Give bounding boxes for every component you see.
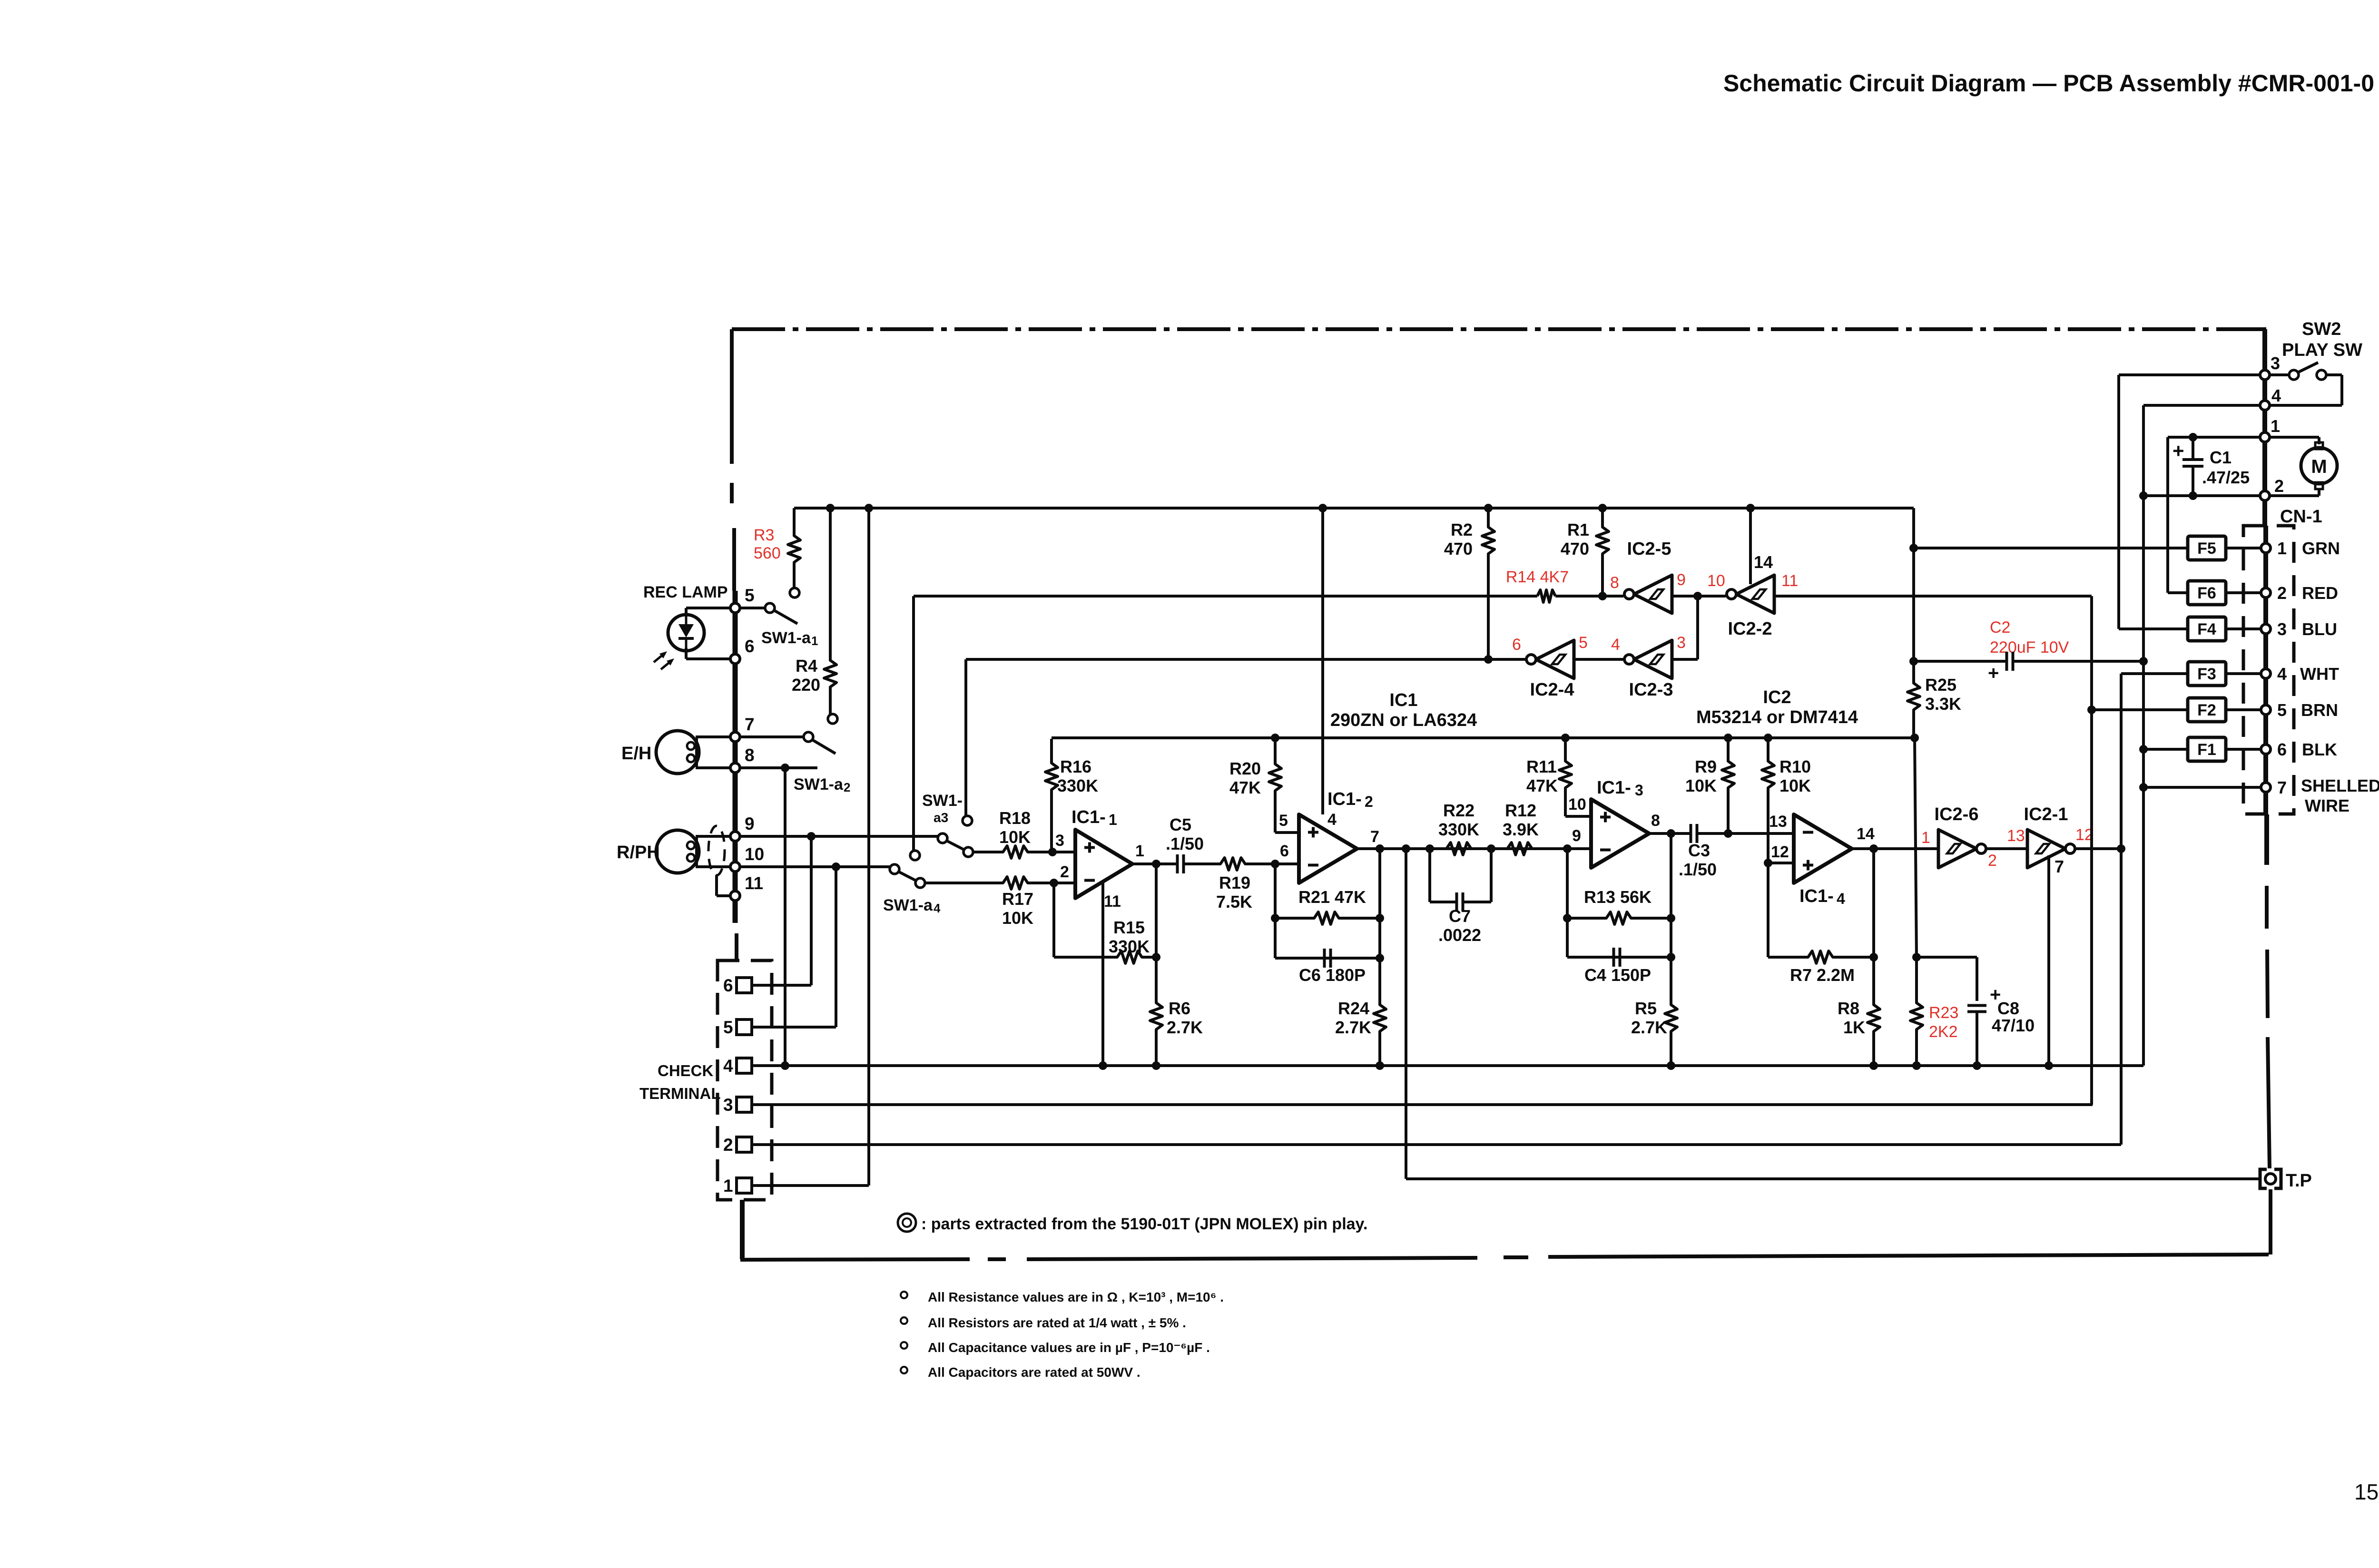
svg-text:E/H: E/H [621, 744, 651, 764]
svg-text:C3: C3 [1688, 841, 1710, 860]
junction IC1-1 pin3 node with R16 [1048, 848, 1057, 856]
svg-text:12: 12 [1771, 843, 1789, 861]
svg-text:8: 8 [1651, 812, 1660, 830]
CN-1 pin 4 WHT [2261, 669, 2271, 678]
wire IC2-1 output to V2 [2075, 847, 2121, 850]
svg-text:C7: C7 [1449, 906, 1471, 926]
svg-text:R24: R24 [1338, 999, 1369, 1018]
svg-text:2: 2 [844, 780, 850, 794]
wire C8 branch [1917, 956, 1977, 959]
svg-text:3: 3 [2271, 353, 2280, 373]
svg-text:10: 10 [745, 844, 764, 864]
wire LED anode to node 5 [686, 607, 731, 609]
svg-text:4: 4 [1327, 811, 1337, 829]
svg-text:All Capacitors are rated at 50: All Capacitors are rated at 50WV . [928, 1365, 1140, 1380]
svg-text:F4: F4 [2197, 620, 2216, 638]
svg-text:13: 13 [1769, 813, 1787, 831]
svg-text:8: 8 [1610, 574, 1619, 592]
svg-text:3: 3 [1055, 832, 1064, 850]
wire SHELLED WIRE row from V3 to CN-1 pin 7 [2143, 786, 2262, 789]
boundary left border dashes above CHECK TERMINAL box [735, 933, 738, 960]
svg-text:8: 8 [745, 745, 755, 765]
svg-text:6: 6 [2277, 740, 2287, 759]
svg-text:R18: R18 [999, 808, 1031, 828]
svg-text:R10: R10 [1779, 757, 1811, 776]
wire into IC1-3 pin 9 [1567, 847, 1591, 850]
svg-text:14: 14 [1754, 552, 1773, 572]
junction V3 at C2 row [2139, 657, 2148, 666]
svg-text:2: 2 [723, 1135, 733, 1155]
wire bus3 corner down to SW1-a3 throw [964, 659, 967, 815]
svg-text:F6: F6 [2197, 584, 2216, 602]
wire supply bus top (bus1) [794, 507, 1912, 510]
switch SW1-a3 [938, 833, 947, 843]
svg-text:SW1-: SW1- [922, 792, 963, 810]
svg-text:1: 1 [1109, 811, 1117, 828]
wire IC2-1 pin 7 down to ground bus [2047, 855, 2050, 1066]
svg-text:WIRE: WIRE [2305, 796, 2350, 815]
wire bus2 to R14 and IC2-5 [914, 595, 1537, 598]
svg-text:IC1: IC1 [1389, 690, 1417, 710]
wire E/H top to node 7 [696, 735, 731, 738]
wire node 10 to SW1-a4 [739, 865, 890, 868]
capacitor C7 .0022 parallel [1428, 849, 1431, 902]
wire node 9 to SW1-a3 [739, 835, 938, 838]
wire node 7 to SW1-a2 [739, 735, 804, 738]
CN-1 pin 1 GRN [2261, 543, 2271, 553]
switch SW1-a4 upper throw contact [910, 851, 920, 860]
svg-text:4: 4 [2277, 664, 2287, 684]
capacitor C3 .1/50 [1690, 824, 1692, 843]
svg-text:2: 2 [1060, 863, 1069, 881]
wire IC2-3 output to IC2-4 input [1574, 658, 1623, 661]
boundary right border dash-dot below CN-1 [2264, 814, 2269, 865]
wire IC1-2 output row [1357, 847, 1537, 850]
svg-text:290ZN or LA6324: 290ZN or LA6324 [1330, 710, 1477, 730]
svg-text:F5: F5 [2197, 539, 2216, 558]
svg-text:3: 3 [1677, 634, 1686, 652]
wire C3 node to IC1-4 pin 13 [1728, 832, 1794, 835]
svg-text:10K: 10K [1779, 776, 1811, 795]
svg-text:10K: 10K [1002, 908, 1033, 928]
svg-text:1: 1 [1921, 829, 1930, 847]
ferrite bead F6 [2188, 581, 2226, 605]
svg-text:F2: F2 [2197, 701, 2216, 719]
wire IC1-4 output down through R7 to R8 [1872, 849, 1875, 1004]
svg-text:GRN: GRN [2302, 539, 2340, 558]
svg-text:IC1-: IC1- [1597, 778, 1631, 798]
svg-text:5: 5 [1579, 634, 1588, 652]
junction V3 at SHELLED row [2139, 783, 2148, 792]
cable shield dashed loop at R/PH [708, 826, 725, 875]
svg-text:R9: R9 [1695, 757, 1717, 776]
svg-text:R21 47K: R21 47K [1298, 887, 1366, 907]
svg-text:F3: F3 [2197, 665, 2216, 683]
svg-text:330K: 330K [1438, 820, 1479, 839]
wire SW2 pin 3 row [2119, 373, 2260, 376]
svg-text:1: 1 [811, 634, 818, 648]
ferrite bead F2 [2188, 698, 2226, 722]
wire R20 into IC1-2 pin 5 [1275, 831, 1299, 834]
svg-text:220uF 10V: 220uF 10V [1990, 638, 2069, 657]
wire R11 into IC1-3 pin 10 [1565, 815, 1591, 818]
svg-text:1: 1 [723, 1176, 733, 1196]
wire vertical node 8 down to ground bus row [784, 768, 786, 1066]
boundary right border upper thick segment through SW2 pins [2262, 329, 2267, 526]
svg-text:1: 1 [2277, 539, 2287, 558]
wire E/H bottom to node 8 [696, 766, 731, 769]
svg-text:PLAY SW: PLAY SW [2282, 340, 2362, 360]
svg-text:C6 180P: C6 180P [1299, 965, 1366, 985]
wire node 8 with junction to check-terminal 4 bus [739, 766, 817, 769]
wire V2 vertical (IC2-1 output net) [2120, 674, 2123, 1145]
wire pin 1 to motor top [2271, 436, 2319, 439]
svg-text:470: 470 [1444, 539, 1473, 559]
wire row C from CHECK pin 2 [752, 1143, 2121, 1146]
wire bus1 corner down right side (V0) [1912, 507, 1914, 510]
svg-text:SW1-a: SW1-a [761, 629, 811, 647]
svg-text:a3: a3 [934, 810, 948, 825]
wire BLK row from V3 to CN-1 pin 6 [2143, 748, 2262, 751]
svg-text:R16: R16 [1060, 757, 1091, 776]
boundary right border thick segment inside CN-1 [2263, 526, 2268, 814]
svg-text:1: 1 [1135, 842, 1144, 860]
CHECK TERMINAL dashed box [718, 960, 772, 1200]
svg-text:7: 7 [2055, 857, 2064, 876]
note bullet 2: resistor rating [901, 1317, 907, 1324]
svg-text:BLU: BLU [2302, 619, 2337, 639]
svg-text:T.P: T.P [2286, 1171, 2312, 1191]
svg-text:All Resistance values are in Ω: All Resistance values are in Ω , K=10³ ,… [928, 1290, 1224, 1304]
resistor R19 7.5K [1214, 858, 1275, 870]
svg-text:330K: 330K [1057, 776, 1098, 795]
svg-text:IC2-3: IC2-3 [1629, 680, 1673, 700]
wire IC2-2 input pin 11 row to V1 [1774, 595, 2092, 598]
wire IC2-5 input to IC2-2 output [1672, 595, 1726, 598]
node 6 on left connector strip [730, 654, 740, 664]
wire IC1-4 output node [1852, 847, 1938, 850]
svg-text:13: 13 [2007, 827, 2025, 845]
svg-text:C5: C5 [1170, 815, 1191, 834]
svg-text:9: 9 [1677, 571, 1686, 589]
wire bus2 corner down to SW1-a4 throw [912, 596, 915, 850]
svg-text:2K2: 2K2 [1929, 1023, 1958, 1041]
junction R10 at IC1-4 pin 12 [1764, 859, 1772, 867]
switch SW1-a4 [890, 864, 899, 874]
junction V0 at GRN row [1909, 544, 1918, 552]
wire SW2 pin3 net down to BLU row [2117, 375, 2120, 629]
wire V0 down from bus4 to C8 node [1915, 738, 1917, 957]
wire motor bottom to pin 2 [2318, 489, 2320, 496]
junction IC1-2 pin6 node [1271, 860, 1279, 868]
svg-text:9: 9 [745, 814, 755, 833]
capacitor C8 47/10 electrolytic [1967, 1004, 1986, 1007]
svg-text:C1: C1 [2210, 448, 2232, 467]
boundary left border lower segment below CHECK TERMINAL [740, 1200, 745, 1259]
wire CHECK pin 1 to supply bus riser [752, 1184, 869, 1187]
svg-text:5: 5 [1279, 812, 1288, 830]
svg-text:IC2-1: IC2-1 [2024, 804, 2068, 824]
CN-1 pin 6 BLK [2261, 745, 2271, 754]
LED D1 REC LAMP symbol [668, 615, 704, 651]
boundary left border connector strip (nodes 5-11) [733, 591, 738, 923]
wire V3 vertical (ground return net) [2142, 405, 2145, 1066]
wire into IC1-2 inverting input pin 6 [1275, 862, 1299, 865]
CN-1 pin 7 SHELLED WIRE [2261, 783, 2271, 792]
note bullet 3: capacitance values [901, 1342, 907, 1349]
svg-text:R13 56K: R13 56K [1584, 887, 1652, 907]
svg-text:IC2-4: IC2-4 [1530, 680, 1574, 700]
junction IC1-1 pin2 node [1050, 879, 1058, 887]
svg-text:CHECK: CHECK [658, 1062, 714, 1079]
boundary bottom border (dash-dot) [740, 1259, 970, 1260]
svg-text:SHELLED: SHELLED [2301, 776, 2379, 795]
wire R10 junction into IC1-4 pin 12 [1768, 862, 1794, 864]
svg-text:C8: C8 [1997, 999, 2019, 1018]
svg-text:R12: R12 [1505, 801, 1536, 820]
wire IC1-1 output node down through R15 to R6 [1155, 864, 1158, 957]
svg-text:6: 6 [745, 637, 755, 656]
svg-text:RED: RED [2302, 583, 2338, 603]
wire RED row from C1 net to CN-1 pin 2 [2168, 591, 2262, 594]
node 11 on left connector strip [730, 891, 740, 901]
svg-text:10K: 10K [999, 827, 1031, 847]
svg-text:R20: R20 [1229, 759, 1261, 778]
svg-text:R6: R6 [1169, 999, 1190, 1018]
svg-text:All Resistors are rated at 1/4: All Resistors are rated at 1/4 watt , ± … [928, 1315, 1186, 1330]
svg-text:R4: R4 [796, 656, 817, 676]
svg-text:4: 4 [1837, 890, 1845, 907]
note bullet 4: capacitor rating [901, 1367, 907, 1373]
junction IC1-3 pin 9 node [1563, 844, 1572, 853]
svg-text:R23: R23 [1929, 1004, 1958, 1022]
ferrite bead F4 [2188, 617, 2226, 641]
ferrite bead F5 [2188, 536, 2226, 560]
junction V3 at C1 bottom row [2139, 491, 2148, 500]
svg-text:220: 220 [792, 675, 820, 695]
wire IC1-1 pin 11 down to ground bus [1101, 881, 1104, 1066]
svg-text:SW2: SW2 [2302, 319, 2341, 339]
svg-text:7.5K: 7.5K [1216, 892, 1252, 911]
svg-text:11: 11 [745, 873, 763, 893]
CN-1 pin 3 BLU [2261, 624, 2271, 634]
junction V0 at C8 branch [1912, 953, 1921, 961]
svg-text:R17: R17 [1002, 889, 1033, 909]
svg-text:7: 7 [2277, 778, 2287, 797]
test point T.P [2260, 1169, 2267, 1188]
svg-text:5: 5 [745, 586, 755, 605]
svg-text:R3: R3 [754, 526, 774, 544]
svg-text:2.7K: 2.7K [1631, 1018, 1667, 1037]
svg-text:2: 2 [1365, 793, 1373, 810]
svg-text:1: 1 [2271, 416, 2280, 436]
wire IC1-1 output to C5 [1132, 862, 1177, 865]
svg-text:6: 6 [723, 976, 733, 995]
wire vertical from IC2-5/IC2-2 node down to IC2-3 input [1696, 596, 1699, 659]
svg-text:R14 4K7: R14 4K7 [1506, 568, 1569, 586]
wire ground bus row from CHECK pin 4 (row A) [752, 1064, 2143, 1067]
junction C3 right with R9 [1724, 829, 1732, 838]
svg-text:R2: R2 [1451, 520, 1473, 539]
svg-text:BLK: BLK [2302, 740, 2337, 759]
boundary left border upper segment [730, 329, 734, 464]
svg-text:IC1-: IC1- [1327, 789, 1362, 809]
svg-text:3: 3 [2277, 619, 2287, 639]
junction V0 at C2 row [1909, 657, 1918, 666]
wire WHT row from V2 to CN-1 pin 4 [2121, 672, 2262, 675]
svg-text:M53214 or DM7414: M53214 or DM7414 [1696, 707, 1858, 727]
wire R/PH bottom to node 10 [696, 865, 731, 868]
svg-text:3.3K: 3.3K [1925, 694, 1961, 714]
wire LED cathode to node 6 [685, 648, 688, 659]
wire pin 1 row with C1 top [2168, 436, 2260, 439]
SW2 pin 1 terminal on border [2260, 432, 2270, 442]
svg-text:560: 560 [754, 544, 781, 562]
CN-1 dashed connector box [2243, 526, 2294, 814]
svg-text:2: 2 [2277, 583, 2287, 603]
svg-text:+: + [1988, 663, 1999, 684]
junction R1 bottom on bus2 [1598, 592, 1607, 600]
wire SW2 pin 4 row to V3 [2143, 404, 2260, 407]
switch SW1-a3 upper throw contact [963, 816, 972, 825]
wire R/PH top to node 9 [696, 835, 731, 838]
svg-text:.1/50: .1/50 [1166, 834, 1204, 853]
junction V1 at BRN row [2087, 706, 2096, 714]
svg-text:IC2-5: IC2-5 [1627, 539, 1671, 559]
svg-text:IC1-: IC1- [1072, 807, 1106, 827]
svg-text:R1: R1 [1567, 520, 1589, 539]
wire row D to T.P [1406, 1177, 2259, 1180]
svg-text:BRN: BRN [2301, 700, 2338, 720]
wire IC1-2 pin 4 up to supply bus [1321, 508, 1324, 814]
junction R2 bottom on bus3 [1484, 655, 1493, 664]
svg-text:C4 150P: C4 150P [1584, 965, 1651, 985]
svg-text:R5: R5 [1635, 999, 1657, 1018]
svg-text:11: 11 [1104, 892, 1121, 911]
svg-text:9: 9 [1572, 827, 1581, 845]
svg-text:3: 3 [723, 1095, 733, 1115]
wire bus4 feedback/bias bus [1052, 736, 1915, 739]
junction dots on ground bus row A [781, 1061, 789, 1070]
svg-text:IC2: IC2 [1763, 687, 1791, 707]
wire shield to node 11 [715, 875, 718, 896]
svg-text:3.9K: 3.9K [1503, 820, 1539, 839]
svg-text:1K: 1K [1843, 1018, 1865, 1037]
wire row B from CHECK pin 3 [752, 1103, 2093, 1106]
svg-text:.1/50: .1/50 [1679, 860, 1717, 879]
ferrite bead F1 [2188, 737, 2226, 761]
svg-text:5: 5 [2277, 700, 2287, 720]
svg-text:7: 7 [745, 715, 755, 734]
svg-text:2: 2 [1988, 852, 1997, 870]
svg-text:SW1-a: SW1-a [883, 896, 933, 914]
node 5 on left connector strip [730, 603, 740, 613]
svg-text:47K: 47K [1229, 778, 1261, 797]
svg-text:4: 4 [1611, 636, 1620, 654]
wire IC1-4 pin12 node down to R7 [1767, 863, 1770, 957]
svg-text:IC2-6: IC2-6 [1935, 804, 1979, 824]
svg-text:IC2-2: IC2-2 [1728, 619, 1772, 639]
boundary top border (dash-dot) [732, 327, 2266, 331]
svg-text:SW1-a: SW1-a [794, 775, 844, 794]
svg-text:+: + [2173, 440, 2184, 462]
wire GRN row from V0 to CN-1 pin 1 [1914, 547, 2262, 549]
svg-text:11: 11 [1781, 572, 1798, 590]
svg-text:14: 14 [1857, 825, 1875, 843]
node 8 on left connector strip [730, 763, 740, 773]
svg-text:.47/25: .47/25 [2202, 468, 2250, 487]
svg-text:.0022: .0022 [1438, 925, 1481, 945]
svg-text:6: 6 [1280, 842, 1289, 860]
svg-text:47K: 47K [1526, 776, 1558, 795]
svg-text:R22: R22 [1443, 801, 1475, 820]
wire IC1-3 output to C3 [1649, 832, 1691, 835]
junction V3 at BLK row [2139, 745, 2148, 754]
note bullet 1: resistance values [901, 1292, 907, 1298]
wire BRN row from V1 to CN-1 pin 5 [2092, 708, 2262, 711]
svg-text:All Capacitance values are in: All Capacitance values are in µF , P=10⁻… [928, 1340, 1210, 1355]
svg-text:: parts extracted from the 519: : parts extracted from the 5190-01T (JPN… [921, 1215, 1367, 1233]
svg-text:R15: R15 [1113, 918, 1145, 937]
svg-text:R19: R19 [1219, 873, 1250, 892]
wire node 5 to SW1-a1 [739, 607, 765, 609]
svg-text:CN-1: CN-1 [2280, 507, 2322, 527]
wire pin 2 row with C1 bottom to V3 [2143, 494, 2260, 497]
svg-text:10: 10 [1707, 572, 1725, 590]
svg-text:TERMINAL: TERMINAL [639, 1085, 720, 1102]
wire pin-11 vertical V1 down to row B [2090, 596, 2093, 1105]
svg-text:5: 5 [723, 1018, 733, 1037]
ferrite bead F3 [2188, 662, 2226, 686]
wire IC1-2 output down to test point row (row D) [1405, 849, 1407, 1179]
note: parts extracted legend [898, 1214, 916, 1232]
node 7 on left connector strip [730, 732, 740, 742]
switch SW1-a2 [828, 714, 837, 724]
svg-text:REC LAMP: REC LAMP [643, 583, 728, 601]
svg-text:7: 7 [1370, 828, 1379, 846]
svg-text:3: 3 [1635, 782, 1643, 799]
CN-1 pin 2 RED [2261, 588, 2271, 598]
SW2 pin 2 terminal on border [2260, 491, 2270, 500]
svg-text:6: 6 [1512, 636, 1521, 654]
node 9 on left connector strip [730, 832, 740, 841]
svg-text:R7 2.2M: R7 2.2M [1790, 965, 1855, 985]
svg-text:15: 15 [2354, 1480, 2379, 1504]
svg-text:C2: C2 [1990, 618, 2010, 637]
wire IC2-6 output to IC2-1 [1986, 847, 2027, 850]
switch SW2 [2270, 373, 2290, 376]
svg-text:R/PH: R/PH [617, 843, 660, 862]
wire V0 down from GRN row to C2 row [1912, 548, 1915, 661]
wire IC1-3 output node down to R13/C4/R5 [1670, 833, 1672, 1004]
svg-text:IC1-: IC1- [1799, 886, 1834, 906]
svg-text:4: 4 [723, 1056, 733, 1076]
wire IC2-2 pin 14 up to supply bus [1749, 508, 1752, 584]
switch SW1-a1 [790, 588, 799, 598]
wire IC1-2 output node down to R21/C6/R24 [1378, 849, 1381, 1004]
svg-text:2.7K: 2.7K [1167, 1018, 1203, 1037]
CN-1 pin 5 BRN [2261, 705, 2271, 715]
motor M [2315, 442, 2323, 449]
svg-text:M: M [2311, 456, 2327, 477]
op-amp IC1-4 (inverting on top) [1794, 814, 1852, 883]
SW2 pin 3 terminal on border [2260, 370, 2270, 380]
node 10 on left connector strip [730, 862, 740, 872]
svg-text:R11: R11 [1526, 757, 1557, 776]
svg-text:2: 2 [2274, 476, 2284, 496]
wire BLU row to CN-1 pin 3 [2119, 627, 2262, 630]
svg-text:F1: F1 [2197, 741, 2216, 759]
